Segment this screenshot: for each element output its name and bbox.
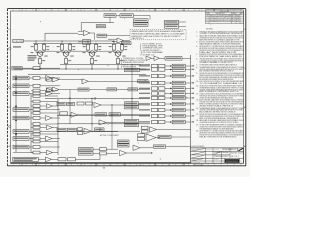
svg-text:D: D: [8, 29, 10, 31]
op-amp U7: [78, 128, 141, 135]
resistor row 10: [31, 150, 58, 155]
svg-text:C: C: [8, 68, 10, 70]
wire mesh h5: [57, 115, 150, 117]
boxes row h7: [57, 128, 77, 131]
op-amp U2b: [112, 38, 130, 43]
output terminal row 2: [139, 68, 194, 72]
wire mesh h1: [60, 63, 150, 65]
wire mesh h7: [57, 131, 118, 133]
op-amp U3b: [82, 79, 150, 84]
note above title block: [191, 145, 205, 148]
label box pitch mon: [96, 25, 105, 28]
wire ap out: [179, 22, 187, 26]
label box servo out: [158, 135, 191, 138]
revision table: [206, 10, 244, 24]
resistor row 5: [31, 112, 58, 115]
svg-text:WHEN MASTER SWITCH IS ENGAGED: WHEN MASTER SWITCH IS ENGAGED PNEUMATIC: [132, 30, 185, 33]
resistor row 4: [31, 104, 58, 109]
label box gyro 2: [120, 14, 134, 17]
op-amp U2: [78, 30, 95, 39]
svg-text:SYM: SYM: [206, 13, 209, 15]
resistor row 7: [31, 125, 58, 130]
svg-text:COND PWR: COND PWR: [13, 41, 22, 43]
resistor row 2: [31, 95, 58, 98]
callout stick force note: [140, 43, 163, 56]
svg-text:4-9: 4-9: [232, 15, 236, 17]
label box tp: [95, 128, 105, 131]
op-amp U6: [99, 120, 125, 125]
label boxes stage4 out: [122, 42, 132, 45]
label box mid2: [95, 113, 107, 116]
label box engage 2: [134, 23, 149, 27]
label box engage 1: [134, 19, 149, 23]
vertical interconnect v1: [69, 90, 71, 124]
input row 8: [13, 136, 60, 141]
output terminal row 3: [139, 74, 194, 78]
label box mid3: [109, 113, 150, 116]
dashed callout master switch: [130, 30, 186, 41]
wire bottom left link: [13, 151, 33, 154]
input row 4: [13, 91, 60, 96]
label box 2nd servo: [125, 68, 151, 71]
resistor row 3: [31, 100, 58, 103]
svg-text:RELAY SHOWN IN DE ENERGIZED: RELAY SHOWN IN DE ENERGIZED: [199, 135, 237, 138]
output terminal row 7: [139, 96, 194, 100]
output terminal row 4: [139, 81, 194, 85]
label box h3 a: [78, 88, 107, 91]
stacked labels right1: [125, 102, 139, 109]
bottom border zone ticks: [13, 163, 241, 166]
vertical bus C: [57, 99, 59, 155]
svg-text:ELECTRONICS DIV: ELECTRONICS DIV: [206, 149, 213, 151]
svg-text:3.: 3.: [196, 42, 198, 44]
wire gyro link: [116, 16, 150, 20]
scan specks: [19, 18, 211, 159]
bus emitter return: [14, 69, 146, 75]
gate bottom: [38, 157, 58, 162]
resistor row 1: [31, 88, 58, 93]
svg-text:SEE NOTE 4: SEE NOTE 4: [132, 38, 144, 40]
svg-text:9.: 9.: [196, 73, 198, 75]
svg-text:8.: 8.: [196, 67, 198, 69]
svg-text:SHOWN ON SHEET 1: SHOWN ON SHEET 1: [143, 50, 161, 52]
svg-text:8-1: 8-1: [232, 19, 236, 21]
right bus: [190, 55, 192, 148]
svg-text:WH: WH: [237, 15, 240, 17]
notes text column: [196, 28, 244, 138]
svg-text:B: B: [207, 17, 208, 19]
bus junction dots: [35, 40, 122, 43]
resistor row 6: [31, 123, 58, 126]
vertical interconnect v2: [91, 99, 93, 132]
schematic bottom thick border: [11, 162, 191, 163]
svg-text:REVISIONS: REVISIONS: [220, 11, 230, 13]
vertical bus B: [30, 94, 32, 153]
svg-text:NOTES:: NOTES:: [206, 28, 214, 30]
op-amp U8 servo: [138, 134, 161, 142]
svg-text:SIZE D: SIZE D: [214, 159, 219, 161]
svg-text:TRIM FULL CLKW: TRIM FULL CLKW: [123, 58, 144, 60]
label box bottom left: [13, 157, 39, 161]
svg-text:B: B: [9, 107, 11, 109]
svg-text:A: A: [9, 145, 11, 148]
input row 3: [13, 84, 60, 88]
op-amp U3a: [47, 77, 83, 82]
svg-text:DK: DK: [237, 21, 240, 23]
label box h3 c: [128, 88, 150, 91]
wire bottom riser: [100, 128, 112, 149]
svg-text:D: D: [207, 21, 208, 23]
trim row 1: [79, 148, 119, 151]
svg-text:92D47 1021: 92D47 1021: [231, 153, 244, 155]
resistor row 9: [31, 140, 58, 143]
input row 1: [12, 67, 60, 70]
svg-text:92D471021: 92D471021: [226, 161, 238, 163]
resistor row 8: [31, 133, 58, 136]
op-amp U3c: [47, 87, 79, 92]
sheet border outer: [8, 9, 246, 166]
svg-text:ZONE C4: ZONE C4: [143, 54, 155, 56]
svg-text:4.: 4.: [196, 46, 198, 48]
svg-text:RB: RB: [237, 19, 240, 21]
output terminal row 11: [139, 120, 194, 124]
junction dots mesh: [69, 64, 132, 125]
output terminal row 5: [139, 87, 194, 91]
cluster mid boxes: [57, 102, 93, 106]
registration mark: [103, 167, 105, 169]
op-amp U5: [60, 112, 96, 118]
op-amp U9: [133, 145, 153, 150]
boxes bottom: [58, 155, 100, 161]
stacked boxes bottom mid: [118, 140, 130, 147]
output terminal row 9: [139, 108, 194, 112]
gate G1: [146, 56, 165, 61]
transistor stage Q2: [57, 41, 89, 69]
svg-text:9-7: 9-7: [232, 21, 236, 23]
svg-text:CODE: CODE: [214, 149, 219, 151]
svg-text:6.: 6.: [196, 58, 198, 60]
label box gyro 1: [104, 14, 116, 17]
label box trim out: [154, 145, 191, 148]
op-amp U11: [142, 126, 191, 133]
junction dots: [39, 68, 118, 69]
input row 7: [13, 130, 60, 134]
label autopilot disconnect: [100, 134, 119, 137]
input row 5: [13, 108, 60, 112]
footer text: [194, 165, 204, 167]
wire mesh h6: [57, 123, 150, 125]
wire top feed bus: [23, 41, 122, 43]
svg-text:2.: 2.: [196, 36, 198, 38]
stacked labels right2: [125, 119, 139, 126]
input row 9: [13, 145, 60, 149]
vertical bus A: [15, 75, 17, 152]
input row 2: [13, 76, 60, 81]
output terminal row 6: [139, 92, 194, 96]
svg-text:REV C 47-1021: REV C 47-1021: [194, 165, 204, 167]
transistor stage Q1: [31, 41, 63, 69]
svg-text:1.: 1.: [196, 31, 198, 33]
vertical interconnect v4: [131, 64, 133, 119]
label molded terminal: [28, 55, 37, 61]
trim row 2: [79, 152, 119, 155]
wire upper rail: [45, 33, 112, 41]
svg-text:SH 2 OF 2: SH 2 OF 2: [231, 156, 239, 158]
transistor stage Q4: [109, 41, 128, 69]
svg-text:REV PER EO 47-310 SHT 2 NOTE: REV PER EO 47-310 SHT 2 NOTE: [210, 19, 231, 21]
svg-text:OVERRIDE CIRCUITS: OVERRIDE CIRCUITS: [143, 48, 163, 50]
vertical interconnect v3: [111, 105, 113, 141]
sheet border inner: [11, 11, 244, 163]
input label COND PWR: [13, 39, 23, 47]
wire pitch bus: [81, 17, 114, 31]
callout trim servo note: [121, 58, 145, 69]
svg-text:5.: 5.: [196, 54, 198, 56]
op-amp U10: [120, 150, 154, 155]
relay K1: [78, 40, 91, 45]
svg-text:5. REFERENCE DESIGNATIONS ABBR: 5. REFERENCE DESIGNATIONS ABBREVIATED: [191, 145, 205, 148]
output terminal row 10: [139, 114, 194, 118]
label box h3 b: [107, 88, 128, 91]
label box a computer: [165, 57, 191, 61]
output terminal row 8: [139, 102, 194, 106]
label box ap out 1: [165, 20, 179, 24]
output terminal row 1: [139, 64, 194, 68]
title block: [191, 148, 244, 164]
svg-text:2: 2: [240, 161, 241, 163]
label box h2 out: [138, 80, 149, 83]
svg-text:AUTOPILOT DISCONNECT: AUTOPILOT DISCONNECT: [100, 134, 119, 137]
svg-text:C: C: [207, 19, 208, 21]
op-amp U4: [94, 102, 150, 107]
label box level det: [97, 34, 130, 37]
transistor stage Q3: [83, 41, 115, 69]
input row 6: [13, 116, 60, 121]
svg-text:DESCRIPTION: DESCRIPTION: [216, 13, 225, 15]
label box ap out 2: [165, 25, 179, 29]
svg-text:6-2: 6-2: [232, 17, 236, 19]
side zone letters: [8, 29, 246, 148]
wire mesh h4: [45, 98, 150, 100]
top border zone ticks: [13, 8, 241, 12]
svg-text:PILOT WHEEL STICK: PILOT WHEEL STICK: [143, 43, 162, 45]
svg-text:AIRCRAFT ARMAMENTS INC: AIRCRAFT ARMAMENTS INC: [223, 148, 237, 151]
